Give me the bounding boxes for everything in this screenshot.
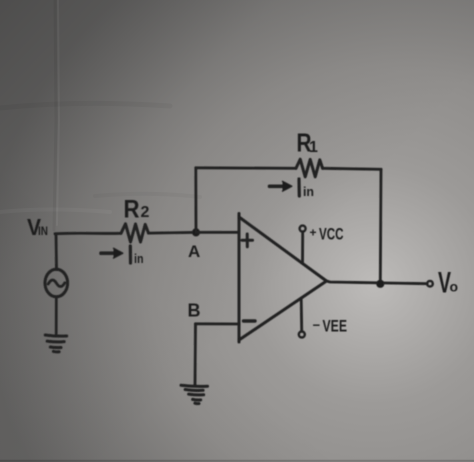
svg-text:B: B [188,301,201,321]
label R1 [297,128,319,158]
terminal Vo [427,281,433,287]
current arrow Iin (feedback) [270,181,292,191]
svg-text:in: in [134,251,144,266]
wire R1 to top-right corner [323,168,381,169]
wire node A to op-amp + input [196,231,239,234]
label +VCC [310,226,344,244]
power terminal -VEE [299,299,305,338]
wire R2 to node A [149,231,197,235]
wire node B down to ground [194,324,197,385]
svg-text:IN: IN [38,224,48,238]
current arrow Iin (input) [101,248,123,258]
svg-text:o: o [450,279,459,295]
resistor R1 [296,159,323,177]
resistor R2 [121,224,149,242]
label -VEE [313,318,348,336]
svg-text:−: − [313,318,321,333]
pin - (inverting) [244,319,256,322]
wire VIN to R2 [55,232,121,235]
wire op-amp output to Vo [327,281,428,284]
pin + (non-inverting) [242,234,253,247]
label Iin (feedback) [299,179,314,199]
svg-text:VCC: VCC [319,226,344,244]
source VIN (AC) [45,234,68,334]
svg-text:+: + [310,226,317,240]
svg-text:A: A [188,242,200,261]
power terminal +VCC [300,226,306,263]
op-amp U1 [239,214,327,343]
node A [193,229,200,236]
label R2 [124,196,150,224]
wire top feedback horizontal to R1 [196,166,296,169]
svg-text:in: in [303,184,314,199]
svg-text:2: 2 [141,204,150,221]
ground (node B) [181,385,208,403]
wire op-amp - input to node B [196,322,240,325]
label Iin (input) [130,246,143,266]
wire node A up to feedback [194,168,197,231]
label VIN [27,214,48,240]
label Vo [438,267,458,300]
svg-text:R: R [124,196,140,224]
svg-text:VEE: VEE [323,318,348,336]
wire feedback vertical down to output [379,169,383,283]
node output junction [377,280,384,287]
ground (source) [45,335,66,352]
svg-text:1: 1 [309,139,318,156]
